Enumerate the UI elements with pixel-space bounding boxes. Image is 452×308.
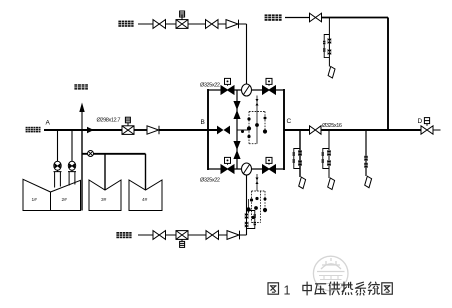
valve EV1 (upper hourglass on equalizing line) bbox=[233, 101, 240, 119]
valve MV2 motorized gate (top branch right) bbox=[263, 78, 276, 94]
twin shut-off valves (drop 2) bbox=[327, 150, 331, 166]
wire: drop from main line to boiler feed header x=82 bbox=[81, 130, 83, 211]
valve V7 motorized gate (at D, line exit) bbox=[421, 118, 433, 135]
svg-text:1#: 1# bbox=[32, 197, 38, 203]
title char: tu (figure) bbox=[268, 283, 279, 294]
drain valve group bracket (drop 2) bbox=[322, 149, 329, 169]
valve V1 gate (top-left line) bbox=[153, 20, 166, 29]
wire: manifold left riser x=208 bbox=[207, 89, 209, 170]
orifice/meter circle on boiler feed header bbox=[88, 151, 94, 157]
valve V2 motorized gate with X-box body (top-left line) bbox=[176, 11, 188, 28]
title char: re bbox=[342, 282, 353, 294]
svg-text:3#: 3# bbox=[101, 197, 107, 203]
svg-text:Ø325x16: Ø325x16 bbox=[322, 123, 342, 129]
wire: drain drop 1 (x=300) bbox=[299, 130, 301, 177]
title char: tong bbox=[368, 282, 379, 294]
twin shut-off valves (drop 3) bbox=[364, 156, 367, 169]
label: to desuperheating station (top-right) bbox=[265, 14, 282, 20]
watermark logo (faint circle seal) bbox=[313, 256, 348, 291]
wire: drain drop from top-right header bbox=[328, 18, 330, 67]
label: medium-pressure heating supply (bottom) bbox=[116, 232, 132, 238]
instrument valves (upper group dots) bbox=[241, 99, 267, 138]
svg-text:D: D bbox=[418, 118, 423, 125]
funnel tag (drop 2) bbox=[328, 178, 335, 190]
drain valve group (bracket) on top-right drop bbox=[323, 35, 329, 58]
instrument tubing group (upper, between branches) bbox=[249, 96, 265, 144]
boiler 2 (right half of twin drum) bbox=[51, 180, 81, 210]
wire: tee up to desuperheater at x=82 bbox=[81, 110, 83, 130]
check valve CK2 (main line) bbox=[147, 126, 159, 134]
title char: zhong bbox=[303, 282, 311, 295]
safety valve SV1 on boiler 2 bbox=[54, 161, 62, 187]
wire: riser from top-right header down to main line bbox=[387, 18, 389, 131]
svg-text:4#: 4# bbox=[142, 197, 148, 203]
svg-text:C: C bbox=[287, 118, 292, 125]
wire: safety valve drop 2 bbox=[71, 130, 73, 161]
drain valve group bracket (bottom riser) bbox=[247, 211, 257, 229]
wire: bottom supply line y=235 bbox=[138, 234, 247, 236]
wire: manifold right riser x=284 bbox=[283, 89, 285, 170]
wire: safety valve drop 1 bbox=[57, 130, 59, 161]
twin shut-off valves on top-right drop bbox=[328, 38, 332, 55]
wire: drain drop 3 (x=366) bbox=[365, 130, 367, 176]
valve V9 motorized gate with X-box body (bottom line) bbox=[176, 231, 188, 248]
twin shut-off valves (drop 1) bbox=[298, 150, 302, 166]
title char: tu (figure) second bbox=[382, 283, 393, 294]
arrow: flow direction on main line bbox=[87, 127, 94, 133]
funnel tag (parallelogram) on top-right drop bbox=[328, 67, 335, 79]
wire: riser from bottom line to lower flow orifice bbox=[246, 175, 248, 235]
valve V4 gate (top-right header) bbox=[310, 13, 322, 22]
valve GV-main (filled gate valve on center main line) bbox=[217, 126, 230, 135]
wire: drop into boiler 4 bbox=[145, 154, 147, 190]
check valve CK3 (bottom line) bbox=[227, 231, 240, 240]
safety valve SV2 on boiler 2 bbox=[68, 161, 76, 185]
valve MV4 motorized gate (bottom branch right) bbox=[263, 157, 276, 173]
arrow: to desuperheater bbox=[79, 103, 84, 113]
valve V10 gate (bottom line) bbox=[206, 231, 219, 240]
label: to desuperheater bbox=[74, 84, 88, 89]
svg-text:Ø325x22: Ø325x22 bbox=[200, 178, 220, 184]
valve V5 motorized gate with X-box body (main line) bbox=[122, 117, 134, 134]
wire: manifold bottom branch y=169 bbox=[208, 168, 284, 170]
valve MV3 motorized gate (bottom branch left) bbox=[221, 157, 234, 173]
valve EV2 (lower hourglass on equalizing line) bbox=[233, 141, 240, 159]
check valve CK1 (top-left line) bbox=[226, 20, 239, 29]
svg-text:B: B bbox=[201, 119, 205, 126]
title char: xi bbox=[356, 282, 366, 295]
boiler 4 (V-top drum) bbox=[129, 180, 162, 211]
wire: manifold top branch y=90 bbox=[208, 89, 284, 91]
svg-text:2#: 2# bbox=[62, 197, 68, 203]
flow element FE1 (top branch orifice circle) bbox=[242, 84, 252, 96]
title: figure 1 caption (pseudo CJK strokes) bbox=[268, 282, 392, 297]
wire: top-left supply line y=24 bbox=[138, 23, 247, 25]
wire: drop from top-left line to upper flow orifice bbox=[246, 24, 248, 85]
drain valve group bracket (drop 1) bbox=[293, 149, 300, 169]
wire: main steam line y=130 bbox=[44, 129, 122, 131]
wire: boiler feed header y=153.8 bbox=[82, 153, 146, 155]
title char: gong bbox=[329, 282, 339, 295]
instrument tubing group (lower, below bottom branch) bbox=[249, 174, 266, 223]
flow element FE2 (bottom branch orifice circle) bbox=[242, 163, 252, 175]
label: medium-pressure heating supply (top-left) bbox=[118, 21, 134, 27]
twin shut-off valves (bottom riser) bbox=[245, 213, 249, 228]
valve V3 gate (top-left line) bbox=[206, 20, 219, 29]
wire: drain drop 2 (x=329) bbox=[328, 130, 330, 178]
wire: top-right header y=17.5 bbox=[285, 17, 310, 19]
valve V6 gate (after C) bbox=[310, 126, 322, 134]
boiler 3 (V-top drum) bbox=[89, 180, 121, 211]
svg-text:Ø325x22: Ø325x22 bbox=[200, 83, 220, 89]
wire: equalizing line x=237 between branches bbox=[236, 90, 238, 169]
wire: drop into boiler 3 bbox=[104, 154, 106, 190]
funnel tag (drop 1) bbox=[299, 177, 306, 189]
instrument valves (lower group dots) bbox=[246, 178, 267, 220]
valve MV1 motorized gate (top branch left) bbox=[221, 78, 234, 94]
wire: center line stub to instrument manifold bbox=[237, 129, 249, 131]
funnel tag (drop 3) bbox=[365, 176, 372, 188]
wire: main line from C to D bbox=[284, 129, 310, 131]
svg-text:A: A bbox=[46, 120, 51, 127]
label: boiler saturated steam (left) bbox=[26, 127, 41, 133]
title char: ya bbox=[315, 284, 326, 294]
boiler 1 (left half of twin drum) bbox=[23, 179, 51, 210]
svg-text:Ø298x12.7: Ø298x12.7 bbox=[97, 118, 121, 124]
svg-text:1: 1 bbox=[284, 284, 291, 298]
valve V8 gate (bottom line) bbox=[153, 231, 166, 240]
